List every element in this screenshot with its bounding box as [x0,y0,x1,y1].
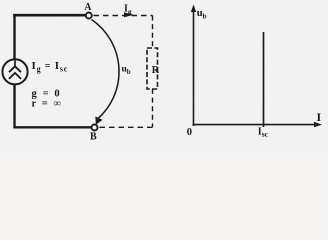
node A terminal [86,13,92,19]
svg-text:R: R [152,65,160,76]
voltage arc arrowhead at B [95,116,102,124]
current source Ig (circle) [2,59,27,84]
svg-text:B: B [90,132,97,143]
resistor R (dashed box) [147,48,158,89]
current source chevron 2 [9,73,21,79]
current source chevron 1 [9,66,21,72]
wire left vertical lower [13,85,15,129]
dashed wire corner to B [99,126,153,128]
wire bottom horizontal [13,126,91,128]
dashed wire resistor down to corner [152,89,154,127]
voltage arc Ub from A to B [92,20,120,120]
svg-text:I: I [317,110,322,124]
graph x-axis arrowhead [314,122,322,127]
graph y-axis arrowhead [191,5,196,13]
svg-text:A: A [84,2,92,13]
current arrow Ig on dashed wire [124,12,134,17]
wire top horizontal [13,14,85,17]
graph x-axis [193,124,318,126]
wire left vertical upper [13,14,15,59]
graph y-axis [193,8,195,126]
characteristic line at Isc [263,32,265,127]
svg-text:0: 0 [187,127,192,138]
dashed wire corner down to resistor [152,16,154,49]
dashed wire A to corner [94,15,153,17]
svg-text:r = ∞: r = ∞ [32,99,63,110]
node B terminal [92,125,98,131]
current source arrow stem [14,60,16,67]
